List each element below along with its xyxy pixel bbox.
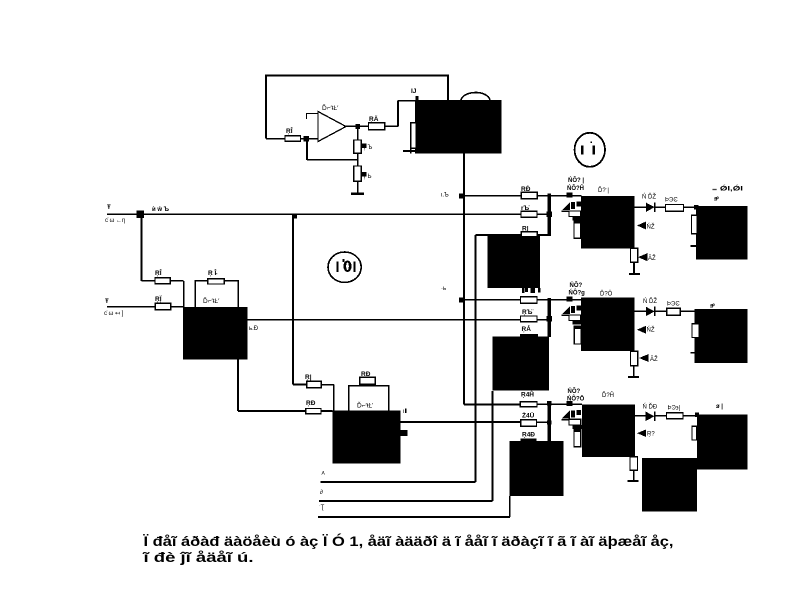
resistor R22 [521,316,537,322]
diode VD3 ch3 [646,412,655,422]
resistor R32 [521,420,537,427]
svg-text:ϲ̇ ω ←η: ϲ̇ ω ←η [105,218,125,224]
resistor R14 out ch1 [665,205,683,212]
node output junction [355,124,360,129]
svg-text:ŗЪ̇: ŗЪ̇ [521,205,530,212]
svg-text:ι.Ъ: ι.Ъ [441,193,449,199]
pin slot B3 [692,426,697,440]
resistor R4 [307,381,321,388]
svg-text:ŃŽ: ŃŽ [647,326,655,334]
bar node ch3 [548,402,551,441]
resistor R2 [155,303,170,309]
svg-text:Ď⌐′ŧĿ′: Ď⌐′ŧĿ′ [322,103,339,112]
diode VD ch1 lower [638,253,647,261]
wire to ground ch3 [633,470,635,481]
ground ch1 [629,273,640,275]
relay B2 ch2 [695,309,748,363]
wire to ground ch2 [633,366,635,377]
svg-text:·ь: ·ь [441,286,446,292]
svg-text:Ď⌐′ŧĿ̛: Ď⌐′ŧĿ̛ [357,401,373,410]
node junction op-amp input [304,136,310,142]
svg-text:Ď⌐′ŧĿ′: Ď⌐′ŧĿ′ [203,296,220,305]
wire output op-amp [346,125,369,127]
wire bus2 + bottom line A [320,235,475,482]
resistor R11 [521,192,537,198]
transformer A2 ch2-left [493,337,550,391]
wire bus1 from U1 [464,154,520,405]
wire [266,138,309,140]
svg-text:ϷϿϾ: ϷϿϾ [665,198,678,204]
diode into IC ch2 [637,326,646,334]
transformer A3 ch3-left [510,441,564,496]
pin slot U1 left [411,123,417,149]
wire input1 down [142,214,156,280]
svg-text:Ï đåĩ áðàđ äàöåèù ó àç Ï Ó 1,: Ï đåĩ áðàđ äàöåèù ó àç Ï Ó 1, åäĩ àääðî … [142,534,673,549]
node input1 junction [137,210,145,218]
svg-text:ŃÔ?: ŃÔ? [570,281,583,289]
svg-text:ŖÐ̦: ŖÐ̦ [361,371,371,378]
svg-text:ŖÐ̇: ŖÐ̇ [521,185,531,193]
svg-text:ˑƮ: ˑƮ [319,505,325,511]
resistor R13 [521,232,537,238]
wire ch2 net1 [461,299,548,301]
opto LED VU1 [562,202,581,211]
ground ch3 [628,480,639,482]
wire ch3 out [635,415,667,417]
svg-text:ŗ Ь: ŗ Ь [364,174,372,180]
opto LED VU3 [562,410,581,419]
wire DA1.1 bottom pin [238,359,306,411]
svg-text:ŃÔ?Ĥ: ŃÔ?Ĥ [567,184,584,192]
svg-text:Ď?Ĥ: Ď?Ĥ [602,391,614,399]
ground [351,193,364,195]
IC U1 top arc [461,92,490,100]
wire ch1 out [634,206,665,208]
transformer A1 ch1-left [488,236,541,288]
stub B2 [691,352,695,354]
wire joins bar ch2 [537,319,549,321]
op-amp DA1.2 [333,411,401,464]
resistor R21 [521,297,537,304]
op-amp DA2 [306,112,346,142]
resistor below IC ch3 [630,457,638,471]
bar node ch2 [548,298,551,337]
diode VD ch2 lower [639,354,649,362]
IC D21 ch1 [581,196,634,249]
svg-text:ŗ Ъ: ŗ Ъ [364,145,373,151]
resistor R33 (output series) [369,123,385,130]
svg-text:ŖÄ: ŖÄ [369,115,379,123]
svg-text:⋏: ⋏ [321,471,326,477]
relay B3 ch3 [697,414,748,469]
wire [683,415,697,417]
wire [170,281,183,307]
svg-text:ϧ |: ϧ | [716,404,723,410]
wire [357,153,359,166]
wire [683,206,696,208]
svg-text:ŖÁ̇: ŖÁ̇ [522,324,532,333]
feedback loop DA1.2 [349,386,389,411]
pin stub DA1.2 right [400,430,408,436]
pin slot B2 [692,324,699,338]
resistor R5 [306,409,321,414]
resistor R31 [520,402,537,407]
svg-text:ĂŽ: ĂŽ [650,355,658,363]
opto LED VU2 [562,306,581,315]
wire to ground [357,181,359,194]
op-amp DA1.1 [183,307,247,359]
resistor R34 out ch3 [667,413,683,419]
svg-text:ŖÏ̦: ŖÏ̦ [155,295,162,303]
svg-text:Ń ĎŽ: Ń ĎŽ [642,193,656,201]
wire ch1 to opto [551,195,582,197]
pin mark DA1.2 [405,409,407,413]
resistor below opto ch1 [574,220,581,238]
wire ch1 net1 [461,195,548,197]
svg-text:ĂŽ: ĂŽ [648,254,656,262]
relay B1 ch1 [696,206,748,260]
node bus1-ch2 [459,297,464,302]
relay box 4 bottom [642,458,697,512]
pin stub ch3-left top [521,438,537,441]
svg-text:∂: ∂ [320,489,323,496]
svg-text:IJ: IJ [411,88,417,95]
wire bus4 + bottom line C [318,496,510,517]
wire divider [357,128,359,140]
resistor below opto ch2 [574,326,581,344]
svg-text:Ŗ|̦: Ŗ|̦ [522,226,530,233]
diode into IC ch3 [637,430,646,437]
wire stub [309,138,319,140]
resistor R1 [155,278,170,284]
svg-text:Ď?ˑ|: Ď?ˑ| [598,186,609,194]
terminal input 2 [107,306,155,308]
lamp symbol circle top right [575,133,605,167]
wire feedback tap [307,139,358,166]
resistor below IC ch1 [630,248,637,262]
pin slot B1 [692,215,698,234]
svg-text:ŃÔ?ɡ: ŃÔ?ɡ [569,289,586,297]
svg-text:Ŗ?: Ŗ? [647,432,655,438]
wire bus left (x=293) [293,214,307,384]
terminal input 1 [107,213,522,215]
diode VD2 ch2 [646,307,655,317]
svg-text:Ń ĎÐ: Ń ĎÐ [643,403,658,411]
svg-text:ĩ đè ĵĩ åäåĩ ú.: ĩ đè ĵĩ åäåĩ ú. [142,550,253,565]
wire [321,410,333,412]
resistor R24 out ch2 [667,308,681,315]
IC D23 ch3 [582,404,635,457]
wire bus3 + bottom line B [319,391,492,501]
wire ch1 net3 [475,234,521,236]
resistor below IC ch2 [630,351,637,365]
svg-text:Ŗ4Ð: Ŗ4Ð [522,432,535,439]
svg-text:ϲ̇ ω ↤ ]: ϲ̇ ω ↤ ] [104,311,124,317]
svg-text:ѝ ŵ Ъ: ѝ ŵ Ъ [152,206,169,213]
wire [680,310,695,312]
ground ch2 [628,376,639,378]
diode VD1 ch1 [646,203,655,213]
resistor R35 (divider lower) [354,166,367,181]
resistor R34 (divider upper) [354,140,367,153]
wire joins bar ch3 [536,404,549,422]
svg-text:ŃŽ: ŃŽ [647,223,655,231]
resistor R3 (feedback DA1.1) [208,279,225,284]
pin tick U1 [416,96,419,100]
wire joins to bar ch1 [537,214,549,235]
svg-text:ŃÔ?: ŃÔ? [568,387,581,395]
svg-text:ŖÐ: ŖÐ [306,400,316,407]
stub B1 [691,245,696,247]
wire ch3 to opto [551,403,582,405]
resistor below opto ch3 [574,429,581,447]
wire [171,306,184,308]
svg-text:Ŧ: Ŧ [107,205,111,211]
svg-text:ϷϿϾ: ϷϿϾ [667,302,680,308]
bar node ch1 [548,194,551,237]
svg-text:Ŗ4Ĥ: Ŗ4Ĥ [521,390,534,399]
svg-text:ŃÔ?Ō: ŃÔ?Ō [567,395,585,403]
svg-text:Ŧ: Ŧ [105,299,109,305]
node bus1-ch1 [459,193,464,198]
IC U1 [415,100,502,154]
wire to ground ch1 [633,262,635,274]
svg-text:₌ ǾΙ,ǾΙ: ₌ ǾΙ,ǾΙ [712,185,744,193]
wire stub U1 lower-left [403,148,415,154]
wire [321,385,334,411]
wire DA1.1 output [247,319,520,321]
wire ch2 to opto [551,299,582,301]
svg-text:Ŗ|: Ŗ| [305,374,312,381]
wire feedback loop top [266,76,448,139]
svg-text:ϷϿ϶|: ϷϿ϶| [668,406,681,412]
svg-text:Ż4Ü: Ż4Ü [522,411,535,420]
svg-text:ŃÔ? |: ŃÔ? | [568,176,584,184]
IC D22 ch2 [581,297,634,351]
resistor R12 [521,211,537,217]
svg-text:ь.Ð: ь.Ð [249,326,259,332]
wire DA1.2 output [401,421,521,423]
wire ch2 out [634,310,667,312]
svg-text:Ď?Ô: Ď?Ô [600,290,613,298]
svg-text:Ń ĎŽ: Ń ĎŽ [643,297,657,305]
diode into IC ch1 [637,222,646,230]
resistor R30 (op-amp input) [285,136,301,142]
feedback loop DA1.1 [195,281,238,308]
node [293,214,297,218]
resistor R6 (feedback DA1.2) [360,377,375,384]
node symbol circle O1 [328,252,361,282]
wire to U1 [385,101,415,127]
